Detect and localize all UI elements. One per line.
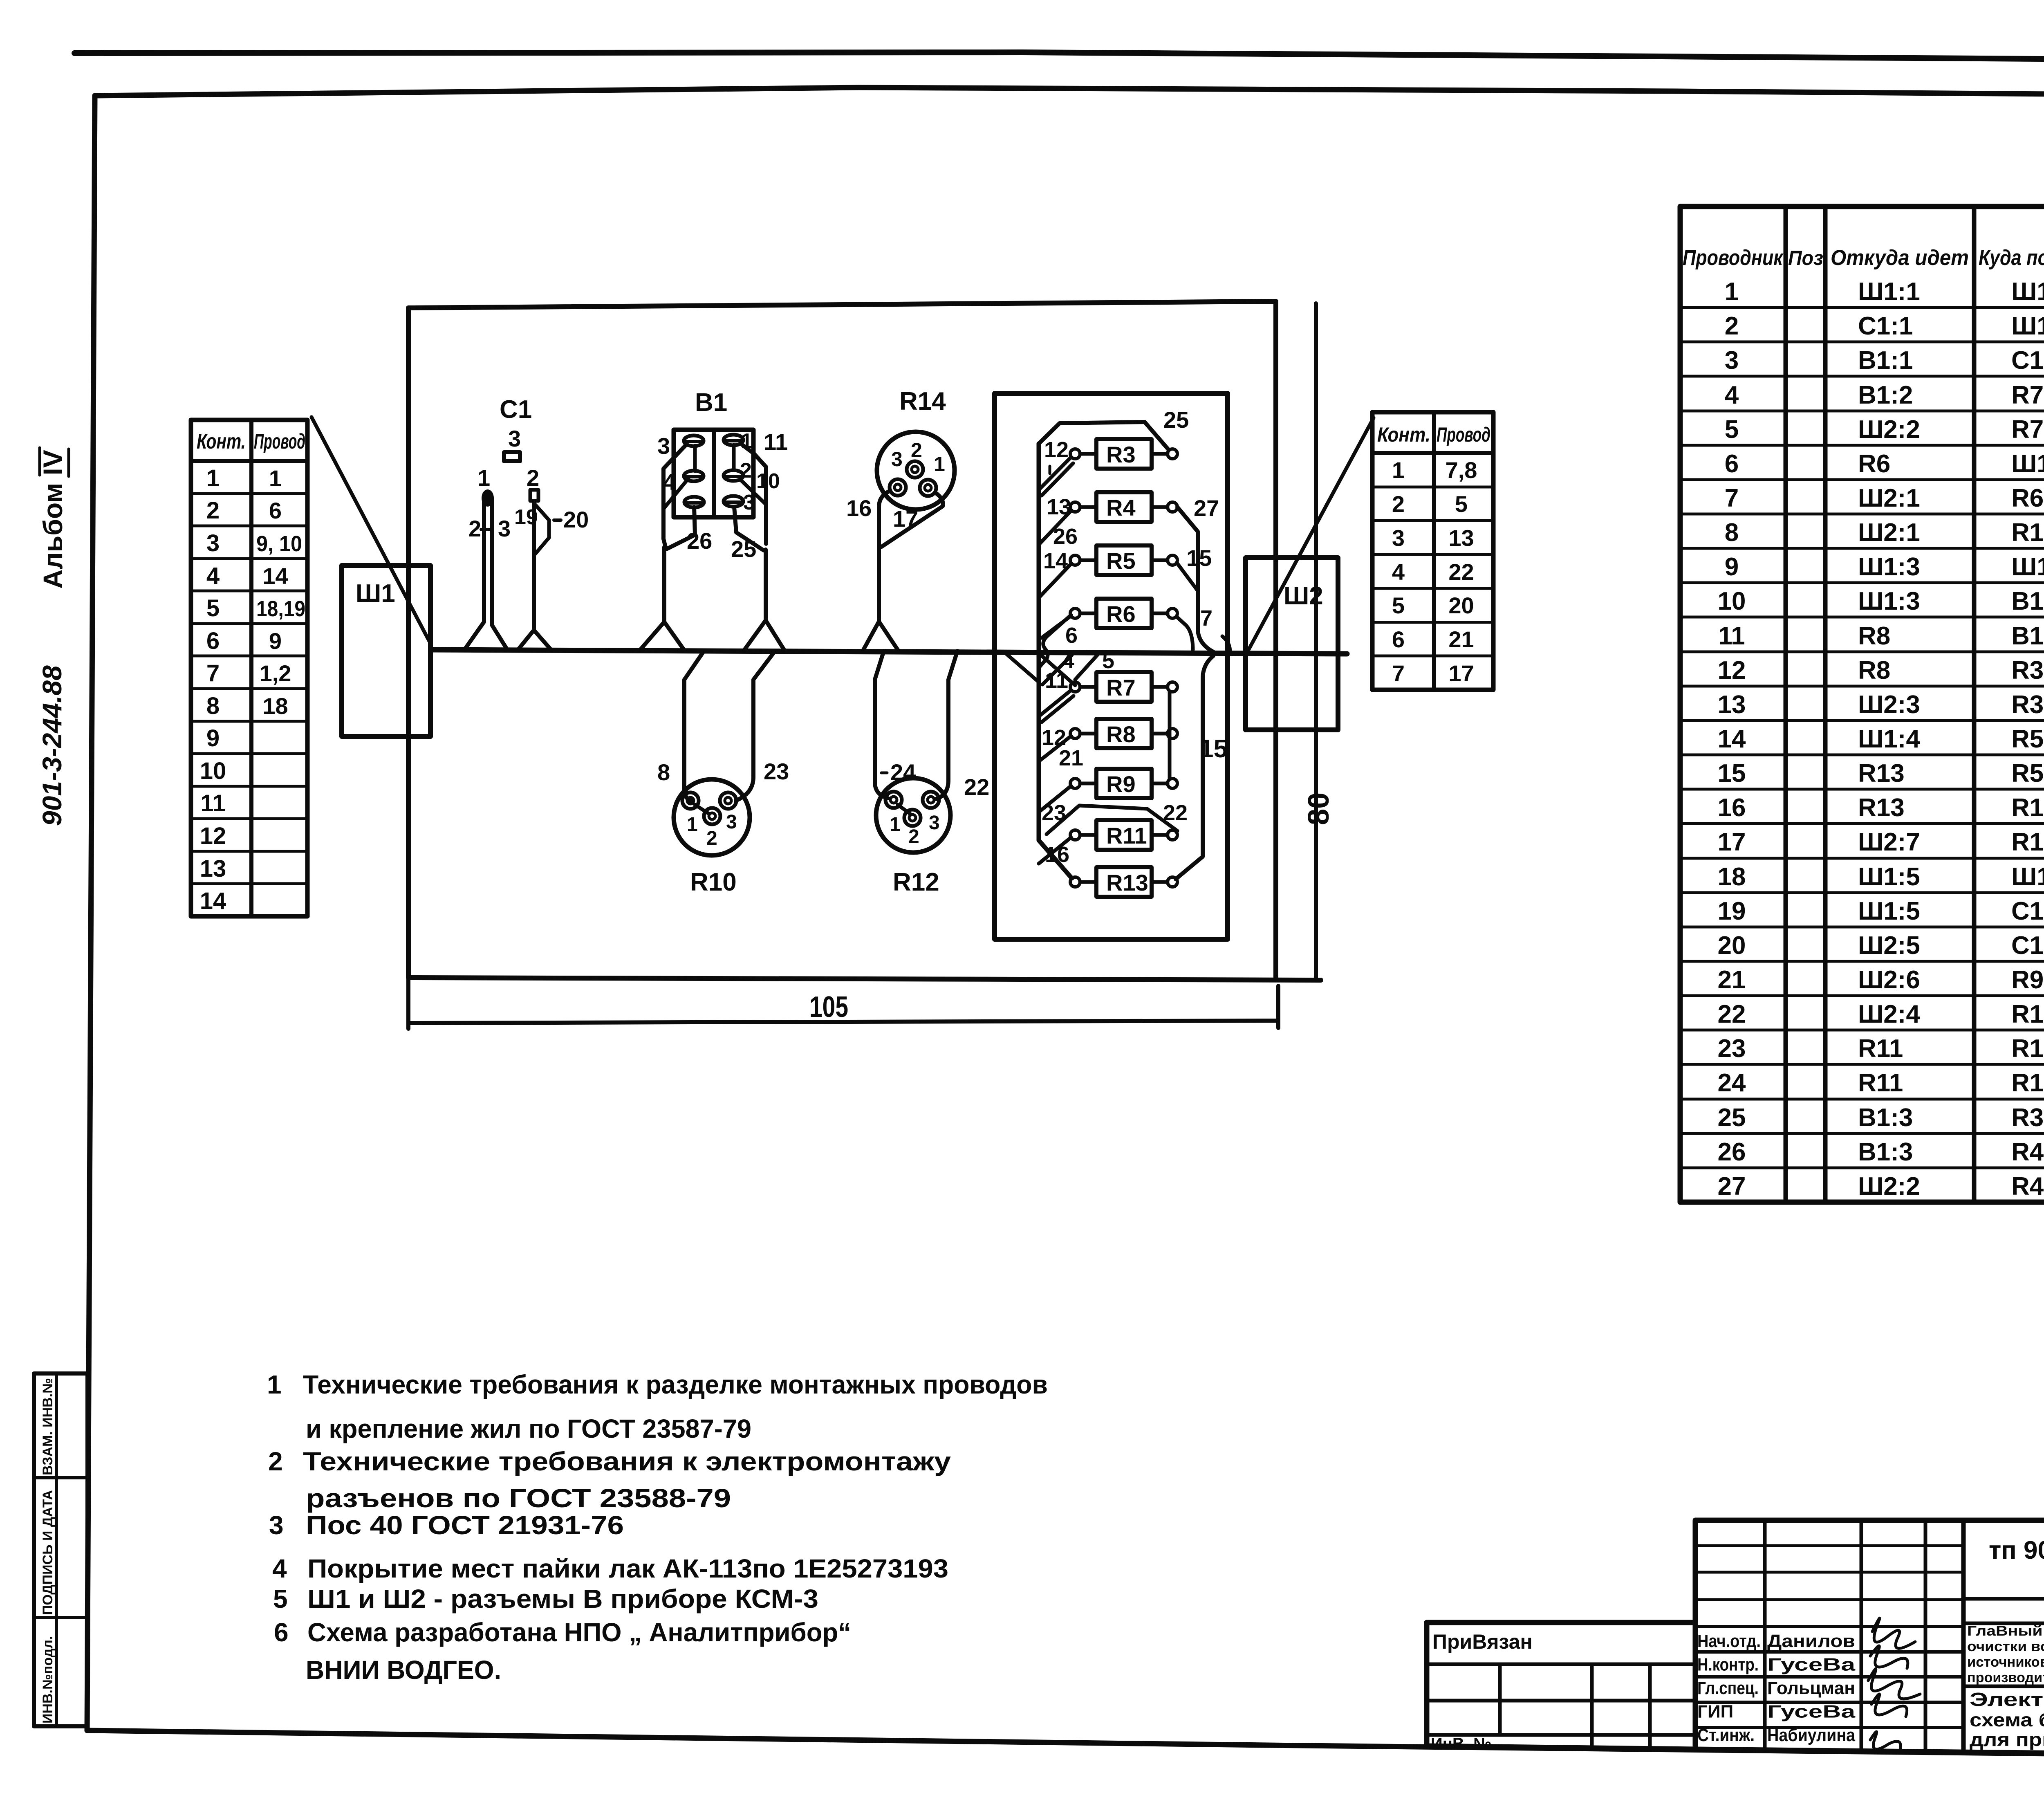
wire 25 top run — [1039, 422, 1168, 449]
svg-text:R10: R10 — [690, 868, 737, 896]
svg-text:25: 25 — [1163, 407, 1189, 433]
svg-text:14: 14 — [1718, 725, 1746, 753]
svg-text:6: 6 — [269, 498, 282, 523]
svg-text:разъенов по ГОСТ 23588-79: разъенов по ГОСТ 23588-79 — [306, 1483, 731, 1513]
svg-text:16: 16 — [1045, 842, 1069, 867]
svg-text:1,2: 1,2 — [260, 660, 291, 686]
svg-text:6: 6 — [1065, 623, 1078, 648]
svg-text:ИнВ. №: ИнВ. № — [1431, 1735, 1492, 1753]
svg-text:10: 10 — [200, 758, 226, 784]
svg-text:C1: C1 — [500, 395, 532, 424]
svg-text:3: 3 — [929, 812, 940, 834]
svg-text:Гольцман: Гольцман — [1767, 1678, 1855, 1698]
svg-text:ГусеВа: ГусеВа — [1767, 1655, 1856, 1675]
svg-text:Ш2:3: Ш2:3 — [1858, 691, 1920, 719]
svg-text:5: 5 — [1455, 491, 1468, 517]
svg-text:R14:1: R14:1 — [2011, 828, 2044, 856]
svg-text:Ш1:1: Ш1:1 — [1858, 278, 1920, 306]
svg-text:1: 1 — [890, 814, 901, 835]
page outer top edge line — [74, 52, 2044, 62]
svg-text:9, 10: 9, 10 — [256, 532, 302, 556]
svg-text:11: 11 — [764, 429, 788, 455]
svg-text:15: 15 — [1199, 735, 1228, 763]
svg-text:1: 1 — [1725, 278, 1739, 306]
svg-text:26: 26 — [687, 528, 712, 554]
title block — [1427, 1520, 2044, 1757]
svg-text:Ш2:4: Ш2:4 — [1858, 1000, 1920, 1028]
svg-text:и крепление жил по ГОСТ 23587-: и крепление жил по ГОСТ 23587-79 — [306, 1414, 751, 1443]
svg-text:2: 2 — [268, 1447, 283, 1476]
svg-text:Ш2: Ш2 — [1284, 582, 1323, 610]
svg-text:Технические требования к разде: Технические требования к разделке монтаж… — [303, 1370, 1048, 1399]
svg-text:1: 1 — [477, 465, 490, 491]
svg-text:27: 27 — [1194, 495, 1219, 521]
B1 pin labels — [657, 429, 788, 562]
svg-text:Пос 40 ГОСТ 21931-76: Пос 40 ГОСТ 21931-76 — [306, 1510, 624, 1540]
svg-text:Нач.отд.: Нач.отд. — [1697, 1631, 1761, 1651]
svg-text:ПОДПИСЬ И ДАТА: ПОДПИСЬ И ДАТА — [40, 1490, 56, 1615]
svg-text:22: 22 — [1718, 1000, 1746, 1028]
svg-text:14: 14 — [1043, 549, 1068, 573]
svg-text:12: 12 — [1718, 656, 1746, 684]
svg-text:24: 24 — [890, 759, 916, 785]
svg-text:18: 18 — [1718, 863, 1746, 891]
wire list table — [1680, 206, 2044, 1202]
resistor R6 — [1070, 599, 1177, 628]
svg-text:Ш1:5: Ш1:5 — [1858, 863, 1920, 891]
svg-text:20: 20 — [1448, 592, 1474, 618]
svg-text:С1:1: С1:1 — [2011, 346, 2044, 375]
connector Sh1 contact table — [191, 420, 307, 916]
svg-text:R6: R6 — [1106, 601, 1136, 627]
svg-text:R9: R9 — [2011, 966, 2044, 994]
svg-text:80: 80 — [1302, 792, 1335, 825]
svg-text:13: 13 — [1448, 525, 1474, 551]
connector Sh1 — [342, 566, 430, 736]
svg-text:3: 3 — [891, 448, 903, 471]
svg-text:С1:2: С1:2 — [2011, 931, 2044, 960]
svg-text:2: 2 — [908, 826, 919, 848]
svg-text:1: 1 — [934, 453, 945, 476]
svg-text:9: 9 — [1725, 553, 1739, 581]
svg-text:26: 26 — [1718, 1138, 1746, 1166]
svg-text:тп 901-3-244.88: тп 901-3-244.88 — [1989, 1536, 2044, 1564]
dimension line 105 — [408, 978, 1278, 1029]
svg-text:11: 11 — [1718, 622, 1745, 650]
svg-text:R5: R5 — [2011, 725, 2044, 753]
svg-text:23: 23 — [1718, 1035, 1746, 1063]
svg-text:12: 12 — [200, 823, 226, 849]
svg-text:7: 7 — [1392, 660, 1405, 686]
svg-text:5: 5 — [1725, 415, 1739, 444]
svg-text:4: 4 — [1392, 559, 1405, 585]
svg-text:R10:3: R10:3 — [2011, 1035, 2044, 1063]
svg-text:7,8: 7,8 — [1446, 457, 1477, 483]
svg-text:R4: R4 — [2011, 1138, 2044, 1166]
svg-text:3: 3 — [206, 530, 220, 557]
svg-text:13: 13 — [200, 855, 226, 882]
svg-text:2: 2 — [911, 439, 922, 462]
svg-text:R8: R8 — [1106, 721, 1136, 747]
resistor block outline — [995, 393, 1228, 939]
svg-text:23: 23 — [764, 759, 789, 784]
svg-text:19: 19 — [514, 505, 538, 529]
svg-text:27: 27 — [1718, 1172, 1746, 1201]
svg-text:17: 17 — [893, 506, 918, 532]
svg-text:Поз: Поз — [1788, 247, 1823, 269]
leader line from Sh2 table to Sh2 — [1247, 418, 1374, 652]
svg-text:R7: R7 — [1106, 675, 1136, 700]
svg-text:24: 24 — [1718, 1069, 1746, 1097]
svg-text:16: 16 — [846, 495, 872, 521]
svg-text:С1:1: С1:1 — [1858, 312, 1913, 340]
svg-text:Ш1:7: Ш1:7 — [2011, 278, 2044, 306]
svg-text:2: 2 — [527, 465, 539, 491]
svg-text:Данилов: Данилов — [1767, 1631, 1855, 1651]
svg-text:В1:2: В1:2 — [2011, 587, 2044, 615]
svg-text:14: 14 — [262, 563, 288, 589]
left wire bundle of resistor block — [1039, 444, 1074, 878]
resistor R4 — [1070, 492, 1177, 522]
svg-text:B1: B1 — [695, 388, 727, 417]
svg-text:22: 22 — [1448, 559, 1474, 585]
svg-text:В1:2: В1:2 — [1858, 381, 1913, 409]
B1 wires to bus — [640, 444, 784, 650]
svg-text:105: 105 — [809, 991, 848, 1023]
left stamp column boxes — [34, 1373, 87, 1726]
svg-text:17: 17 — [1718, 828, 1746, 856]
svg-text:1: 1 — [1392, 457, 1405, 483]
svg-text:Ш2:1: Ш2:1 — [1858, 484, 1920, 512]
svg-text:18: 18 — [262, 693, 288, 719]
svg-text:Ш1:8: Ш1:8 — [2011, 863, 2044, 891]
svg-text:R11: R11 — [1858, 1069, 1903, 1097]
svg-text:26: 26 — [1053, 524, 1078, 549]
svg-text:ВЗАМ. ИНВ.№: ВЗАМ. ИНВ.№ — [40, 1378, 56, 1475]
svg-text:20: 20 — [563, 507, 589, 532]
svg-text:6: 6 — [1725, 450, 1739, 478]
svg-text:5: 5 — [1392, 592, 1405, 618]
svg-text:Ст.инж.: Ст.инж. — [1697, 1725, 1755, 1745]
svg-text:Ш1:7: Ш1:7 — [2011, 312, 2044, 340]
svg-text:Ш1 и Ш2 - разъемы В приборе КС: Ш1 и Ш2 - разъемы В приборе КСМ-3 — [307, 1584, 818, 1614]
svg-text:Технические требования к элект: Технические требования к электромонтажу — [303, 1447, 951, 1476]
svg-text:Провод: Провод — [1437, 423, 1490, 446]
svg-text:Провод: Провод — [254, 430, 305, 453]
svg-text:17: 17 — [1448, 660, 1474, 686]
resistor R13 — [1070, 867, 1177, 897]
svg-text:13: 13 — [1718, 691, 1746, 719]
right side wires of resistor block — [1047, 507, 1230, 879]
svg-text:R5: R5 — [1106, 548, 1136, 574]
svg-text:3: 3 — [1392, 525, 1405, 551]
svg-text:23: 23 — [1042, 801, 1066, 825]
svg-text:3: 3 — [269, 1510, 284, 1540]
svg-text:3: 3 — [498, 516, 511, 541]
svg-text:R14: R14 — [899, 387, 946, 415]
svg-text:В1:3: В1:3 — [1858, 1104, 1913, 1132]
svg-text:для прибора АКК-201: для прибора АКК-201 — [1970, 1729, 2044, 1750]
resistor R9 — [1070, 769, 1177, 798]
svg-text:2: 2 — [1725, 312, 1739, 340]
resistor R8 — [1070, 719, 1177, 748]
svg-text:Конт.: Конт. — [1377, 423, 1430, 446]
svg-text:R11: R11 — [1106, 823, 1147, 848]
svg-text:ГусеВа: ГусеВа — [1767, 1702, 1856, 1722]
resistor R7 — [1070, 672, 1177, 702]
svg-text:9: 9 — [269, 628, 282, 654]
svg-text:22: 22 — [964, 774, 989, 800]
resistor R11 — [1070, 820, 1177, 850]
svg-text:2: 2 — [206, 497, 220, 524]
svg-text:Покрытие мест пайки лак АК-113: Покрытие мест пайки лак АК-113по 1Е25273… — [307, 1554, 948, 1583]
svg-text:Ш1:4: Ш1:4 — [1858, 725, 1920, 753]
svg-text:25: 25 — [1718, 1104, 1746, 1132]
svg-text:25: 25 — [731, 536, 756, 562]
svg-text:Ш1:6: Ш1:6 — [2011, 553, 2044, 581]
svg-text:R13: R13 — [1858, 794, 1905, 822]
svg-text:Куда поступает: Куда поступает — [1979, 246, 2044, 270]
svg-text:21: 21 — [1718, 966, 1746, 994]
connector Sh2 contact table — [1372, 412, 1493, 690]
svg-text:8: 8 — [657, 759, 670, 785]
svg-text:8: 8 — [1725, 518, 1739, 547]
svg-text:R14:3: R14:3 — [2011, 794, 2044, 822]
svg-text:3: 3 — [657, 433, 670, 459]
svg-text:5: 5 — [1102, 649, 1114, 673]
svg-text:20: 20 — [1718, 931, 1746, 960]
svg-text:R5: R5 — [2011, 759, 2044, 788]
svg-text:R6: R6 — [2011, 484, 2044, 512]
svg-text:ПриВязан: ПриВязан — [1432, 1630, 1533, 1653]
resistor R12 body — [876, 778, 950, 853]
svg-text:7: 7 — [1200, 606, 1213, 631]
svg-text:7: 7 — [1725, 484, 1739, 512]
technical notes list — [267, 1370, 1048, 1685]
svg-text:Ш1:3: Ш1:3 — [1858, 587, 1920, 615]
svg-text:R7: R7 — [2011, 381, 2044, 409]
svg-text:Н.контр.: Н.контр. — [1697, 1655, 1759, 1675]
svg-text:11: 11 — [1045, 668, 1068, 693]
svg-text:R13: R13 — [1106, 870, 1148, 895]
svg-text:1: 1 — [687, 814, 698, 835]
svg-text:Ш2:7: Ш2:7 — [1858, 828, 1920, 856]
left margin document number 901-3-244.88 Album IV — [37, 450, 68, 826]
bundle crossing hooks at bus — [1005, 615, 1098, 685]
svg-text:В1:1: В1:1 — [2011, 622, 2044, 650]
svg-text:Ш2:5: Ш2:5 — [1858, 931, 1920, 960]
svg-text:Ш1:5: Ш1:5 — [1858, 897, 1920, 925]
svg-text:12: 12 — [1044, 438, 1069, 462]
svg-text:1: 1 — [269, 465, 282, 491]
svg-text:2: 2 — [706, 828, 717, 849]
R14 wires 16,17 — [846, 491, 943, 650]
svg-text:В1:1: В1:1 — [1858, 346, 1913, 375]
svg-text:В1:3: В1:3 — [1858, 1138, 1913, 1166]
R10 wires 8,23 — [657, 651, 789, 801]
svg-text:6: 6 — [1392, 626, 1405, 652]
svg-text:8: 8 — [206, 693, 220, 719]
svg-text:6: 6 — [206, 628, 220, 654]
dimension extension line 80 right — [1314, 303, 1318, 980]
R12 wires 24,22 — [875, 651, 989, 800]
svg-text:Альбом IV: Альбом IV — [38, 450, 68, 589]
resistor R5 — [1070, 545, 1177, 575]
svg-text:R3: R3 — [1106, 442, 1136, 467]
svg-text:Ш2:2: Ш2:2 — [1858, 1172, 1920, 1201]
leader line from Sh1 table to Sh1 — [312, 417, 429, 641]
svg-text:R11: R11 — [1858, 1035, 1903, 1063]
svg-text:5: 5 — [273, 1584, 288, 1614]
svg-text:2: 2 — [1392, 491, 1405, 517]
svg-text:R3: R3 — [2011, 691, 2044, 719]
svg-text:производительностью 12.5тыс мз: производительностью 12.5тыс мз/с. — [1967, 1670, 2044, 1685]
svg-text:21: 21 — [1448, 626, 1474, 652]
switch B1 body — [674, 430, 753, 517]
svg-text:3: 3 — [1725, 346, 1739, 375]
C1 pin 2 with wires 19,20 — [514, 465, 589, 650]
svg-text:2: 2 — [468, 516, 481, 541]
svg-text:R6: R6 — [1858, 450, 1890, 478]
svg-text:18,19: 18,19 — [256, 597, 305, 621]
svg-text:очистки воды поверхностных: очистки воды поверхностных — [1967, 1639, 2044, 1654]
svg-text:Ш2:2: Ш2:2 — [1858, 415, 1920, 444]
svg-text:4: 4 — [206, 563, 220, 589]
svg-text:источников мутностью до 1500мг: источников мутностью до 1500мг/л — [1967, 1654, 2044, 1670]
svg-text:R4: R4 — [1106, 495, 1136, 521]
svg-text:Электромонтажная: Электромонтажная — [1970, 1689, 2044, 1710]
svg-text:R8: R8 — [1858, 656, 1890, 684]
resistor R14 body — [877, 432, 955, 509]
svg-text:Гл.спец.: Гл.спец. — [1697, 1678, 1759, 1698]
svg-text:15: 15 — [1186, 545, 1212, 571]
svg-text:R10:1: R10:1 — [2011, 518, 2044, 547]
svg-text:3: 3 — [726, 811, 737, 833]
resistor R10 body — [674, 779, 750, 855]
svg-text:11: 11 — [200, 790, 225, 817]
svg-text:С1:2: С1:2 — [2011, 897, 2044, 925]
measuring block outline box — [408, 301, 1321, 980]
svg-text:ИНВ.№подл.: ИНВ.№подл. — [40, 1636, 56, 1723]
svg-text:R4: R4 — [2011, 1172, 2044, 1201]
svg-text:Ш1:2: Ш1:2 — [2011, 450, 2044, 478]
C1 pin 1 with wires 2,3 — [464, 465, 511, 650]
harness bus wire — [431, 650, 1347, 654]
svg-text:7: 7 — [206, 660, 220, 687]
svg-text:1: 1 — [206, 465, 220, 491]
svg-text:R3: R3 — [2011, 1104, 2044, 1132]
svg-text:21: 21 — [1059, 746, 1083, 770]
svg-text:R9: R9 — [1106, 771, 1136, 797]
svg-text:схема блока измерительного: схема блока измерительного — [1970, 1709, 2044, 1730]
drawing frame border — [95, 88, 2044, 97]
svg-text:R12:1: R12:1 — [2011, 1069, 2044, 1097]
svg-text:13: 13 — [1047, 495, 1071, 519]
svg-text:6: 6 — [274, 1618, 289, 1647]
svg-text:5: 5 — [206, 595, 220, 622]
resistor R3 — [1070, 439, 1177, 469]
svg-text:ГлаВный корпус для станции: ГлаВный корпус для станции — [1967, 1623, 2044, 1639]
svg-text:R3: R3 — [2011, 656, 2044, 684]
svg-text:14: 14 — [200, 888, 226, 914]
svg-text:19: 19 — [1718, 897, 1746, 925]
svg-text:22: 22 — [1163, 801, 1188, 825]
svg-text:9: 9 — [206, 725, 220, 752]
connector Sh2 — [1246, 558, 1338, 730]
svg-text:1: 1 — [267, 1370, 282, 1399]
svg-text:Ш2:1: Ш2:1 — [1858, 518, 1920, 547]
svg-text:15: 15 — [1718, 759, 1746, 788]
svg-text:4: 4 — [272, 1554, 287, 1583]
svg-text:Ш1: Ш1 — [356, 579, 395, 608]
svg-text:10: 10 — [1718, 587, 1746, 615]
svg-text:3: 3 — [508, 426, 521, 451]
svg-text:Ш1:3: Ш1:3 — [1858, 553, 1920, 581]
svg-text:ГИП: ГИП — [1697, 1702, 1733, 1722]
svg-text:16: 16 — [1718, 794, 1746, 822]
svg-text:Схема разработана НПО „ Аналит: Схема разработана НПО „ Аналитприбор“ — [307, 1618, 851, 1647]
svg-text:Набиулина: Набиулина — [1767, 1725, 1855, 1745]
svg-text:901-3-244.88: 901-3-244.88 — [37, 665, 67, 826]
C1 pin 3 — [504, 426, 521, 461]
resistor block wire labels — [1042, 407, 1228, 867]
svg-text:ВНИИ ВОДГЕО.: ВНИИ ВОДГЕО. — [306, 1655, 501, 1685]
svg-text:R13: R13 — [1858, 759, 1905, 788]
svg-text:Ш2:6: Ш2:6 — [1858, 966, 1920, 994]
svg-text:R7: R7 — [2011, 415, 2044, 444]
svg-text:4: 4 — [1725, 381, 1739, 409]
svg-text:R8: R8 — [1858, 622, 1890, 650]
svg-text:Откуда идет: Откуда идет — [1831, 246, 1969, 270]
svg-text:R12: R12 — [893, 868, 939, 896]
svg-text:R12:3: R12:3 — [2011, 1000, 2044, 1028]
svg-text:Конт.: Конт. — [197, 430, 246, 453]
svg-text:Проводник: Проводник — [1683, 246, 1784, 270]
